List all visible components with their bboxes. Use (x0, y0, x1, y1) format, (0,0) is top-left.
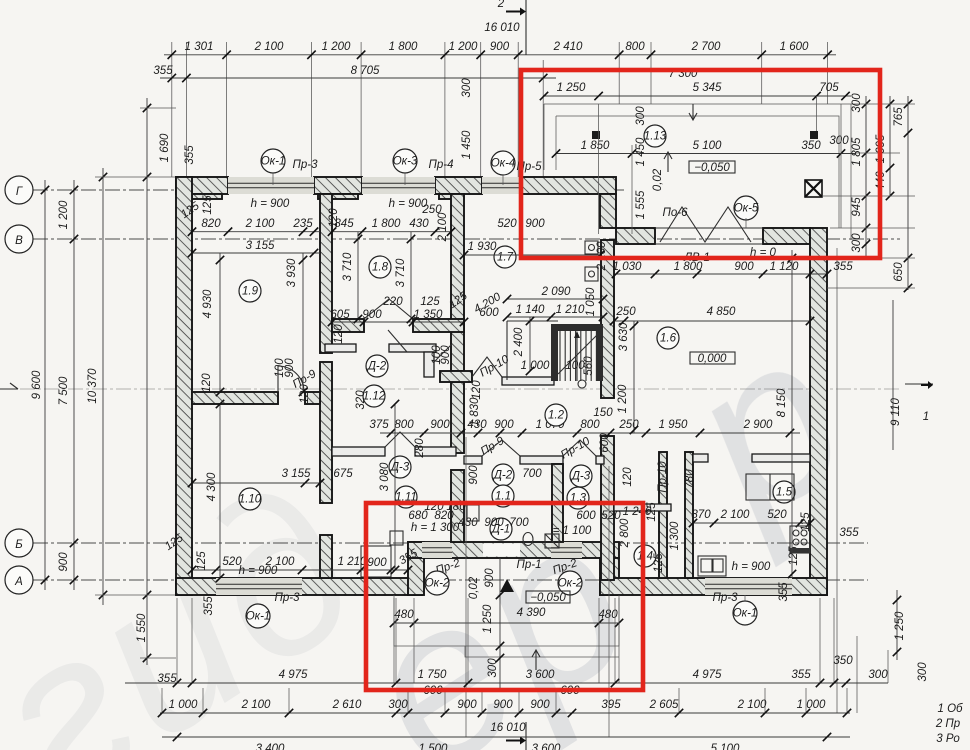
svg-text:2 100: 2 100 (245, 218, 275, 230)
svg-text:В: В (15, 235, 23, 247)
left dim column 1200/7500/900 (73, 180, 75, 590)
svg-text:Пр-10: Пр-10 (657, 461, 669, 493)
partition P7 (1.5 north) (693, 454, 708, 462)
svg-text:900: 900 (525, 218, 545, 230)
svg-text:0,02: 0,02 (652, 168, 664, 191)
svg-text:10 370: 10 370 (87, 368, 99, 404)
svg-text:125: 125 (646, 502, 658, 522)
svg-text:3 630: 3 630 (618, 322, 630, 351)
terrace outline (544, 104, 851, 240)
svg-text:900: 900 (362, 309, 382, 321)
svg-text:300: 300 (851, 233, 863, 253)
svg-text:Д-2: Д-2 (366, 361, 387, 373)
svg-text:250: 250 (615, 306, 636, 318)
svg-text:Ок-5: Ок-5 (734, 203, 759, 215)
bottom-left exterior wall (176, 578, 422, 595)
svg-text:h = 1 300: h = 1 300 (411, 522, 460, 534)
svg-text:h = 900: h = 900 (732, 561, 771, 573)
svg-text:Ок-4: Ок-4 (491, 158, 516, 170)
dim row bottom-2 (160, 712, 850, 714)
svg-text:4 975: 4 975 (279, 669, 308, 681)
section trace 1-1 (20, 388, 900, 390)
svg-text:300: 300 (388, 699, 408, 711)
svg-text:1 000: 1 000 (521, 360, 550, 372)
terrace corner column with X (805, 180, 822, 197)
svg-text:355: 355 (833, 261, 853, 273)
svg-text:Ок-1: Ок-1 (246, 611, 271, 623)
svg-text:16 010: 16 010 (490, 722, 526, 734)
window Ок-1 top (228, 177, 314, 194)
svg-text:3 710: 3 710 (342, 252, 354, 281)
svg-text:4 930: 4 930 (202, 289, 214, 318)
red highlight box top-right (521, 70, 880, 258)
svg-text:280: 280 (414, 438, 426, 459)
svg-text:Пр-4: Пр-4 (429, 159, 454, 171)
svg-text:1 120: 1 120 (770, 261, 799, 273)
svg-text:0,000: 0,000 (698, 353, 727, 365)
svg-text:765: 765 (893, 107, 905, 127)
door swings bottom (482, 440, 520, 456)
svg-text:1 800: 1 800 (389, 41, 418, 53)
axis line А (33, 579, 868, 581)
svg-text:2 900: 2 900 (743, 419, 773, 431)
svg-text:600: 600 (479, 307, 499, 319)
svg-text:1 830: 1 830 (469, 397, 481, 426)
axis circle Г (5, 176, 33, 204)
svg-text:675: 675 (333, 468, 353, 480)
bottom-right exterior wall (600, 578, 827, 595)
svg-text:355: 355 (839, 527, 859, 539)
svg-text:−0,050: −0,050 (694, 162, 730, 174)
svg-text:560: 560 (583, 356, 595, 376)
svg-text:845: 845 (334, 218, 354, 230)
svg-text:900: 900 (457, 699, 477, 711)
svg-text:800: 800 (394, 419, 414, 431)
room tag 1.13 (644, 125, 666, 147)
svg-text:1 210: 1 210 (556, 304, 585, 316)
window Ок-2 right (551, 542, 582, 558)
svg-text:3 710: 3 710 (395, 258, 407, 287)
svg-text:250: 250 (618, 419, 639, 431)
svg-text:120: 120 (201, 373, 213, 393)
window Ок-1 bottom-left (216, 578, 302, 595)
svg-text:705: 705 (819, 82, 839, 94)
svg-text:Ок-2: Ок-2 (425, 578, 450, 590)
svg-text:355: 355 (791, 669, 811, 681)
slope 0,02 arrow (664, 152, 672, 172)
room 1.12 (363, 385, 385, 407)
svg-text:1 300: 1 300 (669, 521, 681, 550)
south niche 900 (361, 546, 391, 577)
svg-text:8 705: 8 705 (351, 65, 380, 77)
svg-text:h = 900: h = 900 (239, 565, 278, 577)
svg-text:2 410: 2 410 (553, 41, 583, 53)
section mark 1 right (905, 383, 933, 385)
partition P6 (1.4 north) (614, 504, 671, 511)
svg-text:1 301: 1 301 (185, 41, 214, 53)
interior wall H2 (1.8 south) (332, 319, 364, 332)
svg-text:320: 320 (355, 390, 367, 410)
door 1.8 swing (364, 299, 413, 319)
svg-text:355: 355 (184, 145, 196, 165)
svg-text:300: 300 (917, 662, 929, 682)
bathroom fixtures (390, 531, 403, 545)
slope arrow down (689, 104, 697, 120)
svg-text:1 000: 1 000 (169, 699, 198, 711)
svg-text:2 610: 2 610 (332, 699, 362, 711)
svg-text:1 030: 1 030 (613, 261, 642, 273)
svg-text:Г: Г (16, 186, 23, 198)
stair south wall H3 (440, 371, 472, 382)
SE riser wall (600, 558, 619, 595)
svg-text:4 300: 4 300 (206, 472, 218, 501)
svg-text:1.9: 1.9 (242, 286, 259, 298)
svg-text:800: 800 (625, 41, 645, 53)
svg-text:900: 900 (468, 465, 480, 485)
kitchen counter (746, 474, 794, 500)
svg-text:120: 120 (333, 324, 345, 344)
svg-text:2 100: 2 100 (254, 41, 284, 53)
svg-text:1 690: 1 690 (159, 133, 171, 162)
svg-text:2 400: 2 400 (513, 327, 525, 357)
svg-text:800: 800 (580, 419, 600, 431)
stove (790, 526, 810, 553)
svg-text:900: 900 (494, 419, 514, 431)
partition P5 (kitchen west) (685, 452, 693, 578)
В-axis wall right segment (763, 228, 810, 244)
right 1250 dim (896, 590, 898, 660)
svg-text:1 800: 1 800 (674, 261, 703, 273)
svg-text:520: 520 (767, 509, 787, 521)
svg-text:4 390: 4 390 (517, 607, 546, 619)
section mark 2 top (525, 0, 527, 55)
svg-text:0,02: 0,02 (468, 576, 480, 599)
svg-text:1 Об: 1 Об (937, 703, 963, 715)
svg-text:1 250: 1 250 (894, 611, 906, 640)
south-central recessed wall (408, 542, 424, 595)
dim row bottom-1 (125, 682, 888, 684)
svg-text:3 400: 3 400 (256, 743, 285, 750)
left exterior wall (176, 177, 192, 595)
axis line В (33, 238, 900, 240)
NE corner step wall (600, 194, 616, 228)
section mark 1 left (0, 388, 18, 390)
svg-text:125: 125 (202, 195, 214, 215)
svg-text:1 200: 1 200 (617, 384, 629, 413)
svg-text:375: 375 (369, 419, 389, 431)
top exterior wall segments (176, 177, 228, 194)
svg-text:3 930: 3 930 (286, 258, 298, 287)
svg-text:820: 820 (201, 218, 221, 230)
svg-text:605: 605 (330, 309, 350, 321)
svg-text:2 700: 2 700 (691, 41, 721, 53)
svg-text:Пр-1: Пр-1 (517, 559, 542, 571)
svg-text:1 200: 1 200 (449, 41, 478, 53)
axis circle А (5, 566, 33, 594)
entrance triangle (500, 579, 514, 592)
top extension lines (171, 42, 173, 177)
bathroom cluster labels (395, 486, 417, 508)
svg-text:1 200: 1 200 (58, 200, 70, 229)
svg-text:По-6: По-6 (663, 207, 689, 219)
svg-text:1 950: 1 950 (659, 419, 688, 431)
level -0,050 bottom (526, 591, 570, 603)
svg-text:650: 650 (893, 262, 905, 282)
svg-text:4 850: 4 850 (707, 306, 736, 318)
axis circle В (5, 225, 33, 253)
level mark -0.050 terrace (689, 161, 735, 173)
door arc 1.9 (278, 366, 304, 392)
window Ок-4 top (482, 177, 522, 194)
pilaster feet top wall (192, 194, 222, 199)
svg-text:1 500: 1 500 (419, 743, 448, 750)
svg-text:600: 600 (576, 510, 596, 522)
svg-text:1 250: 1 250 (482, 604, 494, 633)
svg-text:1 555: 1 555 (635, 190, 647, 219)
svg-text:900: 900 (484, 517, 504, 529)
right 9110 dim (892, 300, 894, 450)
svg-text:2 100: 2 100 (241, 699, 271, 711)
svg-text:150: 150 (593, 407, 613, 419)
left dim column 10370 (102, 168, 104, 605)
Ок-5 tag (734, 196, 758, 220)
svg-text:Пр-3: Пр-3 (713, 592, 739, 604)
entrance door Пр-1 gap (483, 544, 520, 557)
top window tags (261, 149, 285, 173)
room 1.6 (657, 327, 679, 349)
svg-text:9 110: 9 110 (890, 397, 902, 426)
svg-text:Пр-3: Пр-3 (275, 592, 301, 604)
svg-text:1 750: 1 750 (418, 669, 447, 681)
svg-text:3 155: 3 155 (282, 468, 311, 480)
svg-text:4 975: 4 975 (693, 669, 722, 681)
svg-text:900: 900 (490, 41, 510, 53)
svg-text:395: 395 (601, 699, 621, 711)
svg-text:1 450: 1 450 (461, 130, 473, 159)
svg-text:1.6: 1.6 (660, 333, 677, 345)
svg-text:900: 900 (367, 557, 387, 569)
room 1.10 (239, 488, 261, 510)
svg-text:3 600: 3 600 (526, 669, 555, 681)
svg-text:300: 300 (868, 669, 888, 681)
svg-text:1 600: 1 600 (780, 41, 809, 53)
svg-text:430: 430 (458, 517, 478, 529)
svg-text:520: 520 (497, 218, 517, 230)
svg-text:430: 430 (409, 218, 429, 230)
corridor dim row (380, 432, 800, 434)
dim row bottom-3 (162, 736, 850, 738)
svg-text:870: 870 (691, 509, 711, 521)
svg-text:300: 300 (829, 135, 849, 147)
svg-text:1 550: 1 550 (136, 613, 148, 642)
svg-text:2 605: 2 605 (649, 699, 679, 711)
svg-text:1.2: 1.2 (548, 410, 565, 422)
svg-text:9 600: 9 600 (31, 370, 43, 399)
axis line Б (33, 542, 868, 544)
partition P3 (1.1/1.3) (552, 464, 563, 542)
bottom extension verticals (176, 598, 178, 683)
svg-text:900: 900 (734, 261, 754, 273)
svg-text:2: 2 (497, 0, 505, 10)
svg-text:1 140: 1 140 (516, 304, 545, 316)
svg-text:1 000: 1 000 (797, 699, 826, 711)
room 1.8 (369, 256, 391, 278)
svg-text:300: 300 (461, 78, 473, 98)
svg-text:А: А (14, 576, 23, 588)
svg-text:3 Ро: 3 Ро (936, 733, 960, 745)
svg-text:1: 1 (923, 411, 929, 423)
svg-text:355: 355 (153, 65, 173, 77)
svg-text:7 500: 7 500 (58, 376, 70, 405)
door diag 1.12 (388, 330, 407, 352)
terrace dims (544, 95, 851, 97)
window Ок-1 bottom-right (705, 578, 792, 595)
partition P4 (1.4 west) (659, 452, 667, 578)
svg-text:120: 120 (622, 467, 634, 487)
svg-text:1 200: 1 200 (322, 41, 351, 53)
svg-text:1.10: 1.10 (239, 494, 262, 506)
svg-text:1.7: 1.7 (497, 252, 514, 264)
svg-text:2 090: 2 090 (541, 286, 571, 298)
svg-text:900: 900 (493, 699, 513, 711)
kitchen 1.5 (773, 481, 795, 503)
right exterior wall (810, 228, 827, 595)
svg-text:Д-3: Д-3 (389, 462, 410, 474)
svg-text:−0,050: −0,050 (530, 592, 566, 604)
interior wall V3 (1.6 west) (601, 240, 614, 398)
svg-text:Б: Б (15, 539, 23, 551)
window Ок-2 left (422, 542, 452, 558)
svg-text:125: 125 (420, 296, 440, 308)
dim row top-1 (164, 54, 836, 56)
interior wall V2 (center) (451, 194, 464, 371)
section mark 2 bottom (525, 722, 527, 750)
window Ок-3 top (362, 177, 435, 194)
svg-text:300: 300 (487, 658, 499, 678)
svg-text:900: 900 (530, 699, 550, 711)
porch dims (394, 622, 619, 624)
svg-text:125: 125 (196, 551, 208, 571)
watermark diagonal lettering (0, 286, 886, 750)
svg-text:Ок-1: Ок-1 (261, 156, 286, 168)
svg-text:350: 350 (833, 655, 853, 667)
svg-text:600: 600 (599, 433, 611, 453)
right dim cluster top (865, 96, 867, 258)
partition P1b (1.1/1.3 north) (464, 456, 482, 464)
svg-text:Ок-2: Ок-2 (558, 578, 583, 590)
room 1.9 (239, 280, 261, 302)
svg-text:125: 125 (653, 553, 665, 573)
svg-text:355: 355 (778, 582, 790, 602)
svg-text:1 050: 1 050 (585, 287, 597, 316)
svg-text:1 450: 1 450 (635, 137, 647, 166)
В-axis folding door По-6 (660, 207, 751, 242)
svg-text:355: 355 (203, 596, 215, 616)
svg-text:480: 480 (394, 609, 414, 621)
svg-text:900: 900 (484, 568, 496, 588)
svg-text:1 930: 1 930 (468, 241, 497, 253)
stair block (507, 321, 558, 380)
svg-text:3 155: 3 155 (246, 240, 275, 252)
right extension verticals (836, 248, 838, 713)
svg-text:2 800: 2 800 (619, 518, 631, 548)
svg-text:350: 350 (801, 140, 821, 152)
svg-text:1 250: 1 250 (557, 82, 586, 94)
axis line Г (33, 189, 625, 191)
svg-text:Ок-3: Ок-3 (393, 156, 418, 168)
svg-text:Пр-3: Пр-3 (293, 159, 319, 171)
svg-text:900: 900 (58, 552, 70, 572)
svg-text:780: 780 (684, 469, 696, 489)
svg-text:8 150: 8 150 (776, 388, 788, 417)
svg-text:Ок-1: Ок-1 (733, 608, 758, 620)
terrace column NW (592, 131, 600, 139)
dim row top-2 (160, 77, 556, 79)
left dim column 9600 (44, 180, 46, 590)
door H3 swing (472, 357, 502, 377)
svg-text:700: 700 (509, 517, 529, 529)
svg-text:5 345: 5 345 (693, 82, 722, 94)
svg-text:945: 945 (851, 197, 863, 217)
svg-text:1.8: 1.8 (372, 262, 389, 274)
porch outline (394, 595, 619, 646)
terrace column NE (810, 131, 818, 139)
svg-text:1 350: 1 350 (414, 309, 443, 321)
radiator niches 1.7 (585, 241, 598, 254)
svg-text:2 Пр: 2 Пр (935, 718, 961, 730)
svg-text:1 850: 1 850 (581, 140, 610, 152)
axis circle Б (5, 529, 33, 557)
red highlight box bottom-center (366, 503, 643, 690)
svg-text:3 600: 3 600 (532, 743, 561, 750)
sink (698, 556, 726, 576)
svg-text:1.5: 1.5 (776, 487, 793, 499)
svg-text:2 100: 2 100 (737, 699, 767, 711)
interior wall H1 (1.9/1.10) (192, 392, 278, 404)
svg-text:1 210: 1 210 (338, 556, 367, 568)
svg-text:2 100: 2 100 (720, 509, 750, 521)
interior wall V1 (1.9/1.8) (320, 194, 332, 353)
svg-text:700: 700 (522, 468, 542, 480)
svg-text:1 805: 1 805 (851, 137, 863, 166)
partition P1a (1.11 north) (332, 447, 385, 456)
partition P2 (1.12 north) (325, 344, 356, 352)
svg-text:5 100: 5 100 (711, 743, 740, 750)
svg-text:300: 300 (851, 93, 863, 113)
svg-text:235: 235 (292, 218, 313, 230)
svg-text:300: 300 (635, 106, 647, 126)
svg-text:Д-3: Д-3 (570, 471, 591, 483)
svg-text:16 010: 16 010 (484, 22, 520, 34)
svg-text:2 100: 2 100 (437, 212, 449, 242)
left outer extension column (146, 98, 148, 665)
interior vertical dim lines (219, 253, 221, 392)
svg-text:Д-2: Д-2 (492, 470, 513, 482)
svg-text:900: 900 (430, 419, 450, 431)
svg-text:1 800: 1 800 (372, 218, 401, 230)
svg-text:120: 120 (471, 380, 483, 400)
svg-text:1.13: 1.13 (644, 131, 667, 143)
svg-text:5 100: 5 100 (693, 140, 722, 152)
svg-text:h = 900: h = 900 (251, 198, 290, 210)
room 1.7 (494, 246, 516, 268)
